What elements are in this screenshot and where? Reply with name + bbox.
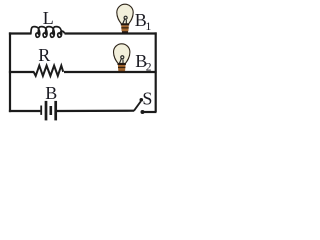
- svg-text:R: R: [38, 45, 50, 65]
- svg-text:L: L: [43, 8, 54, 28]
- svg-text:B: B: [45, 83, 57, 103]
- svg-text:S: S: [142, 89, 152, 109]
- svg-text:1: 1: [145, 19, 151, 33]
- svg-text:2: 2: [146, 61, 152, 73]
